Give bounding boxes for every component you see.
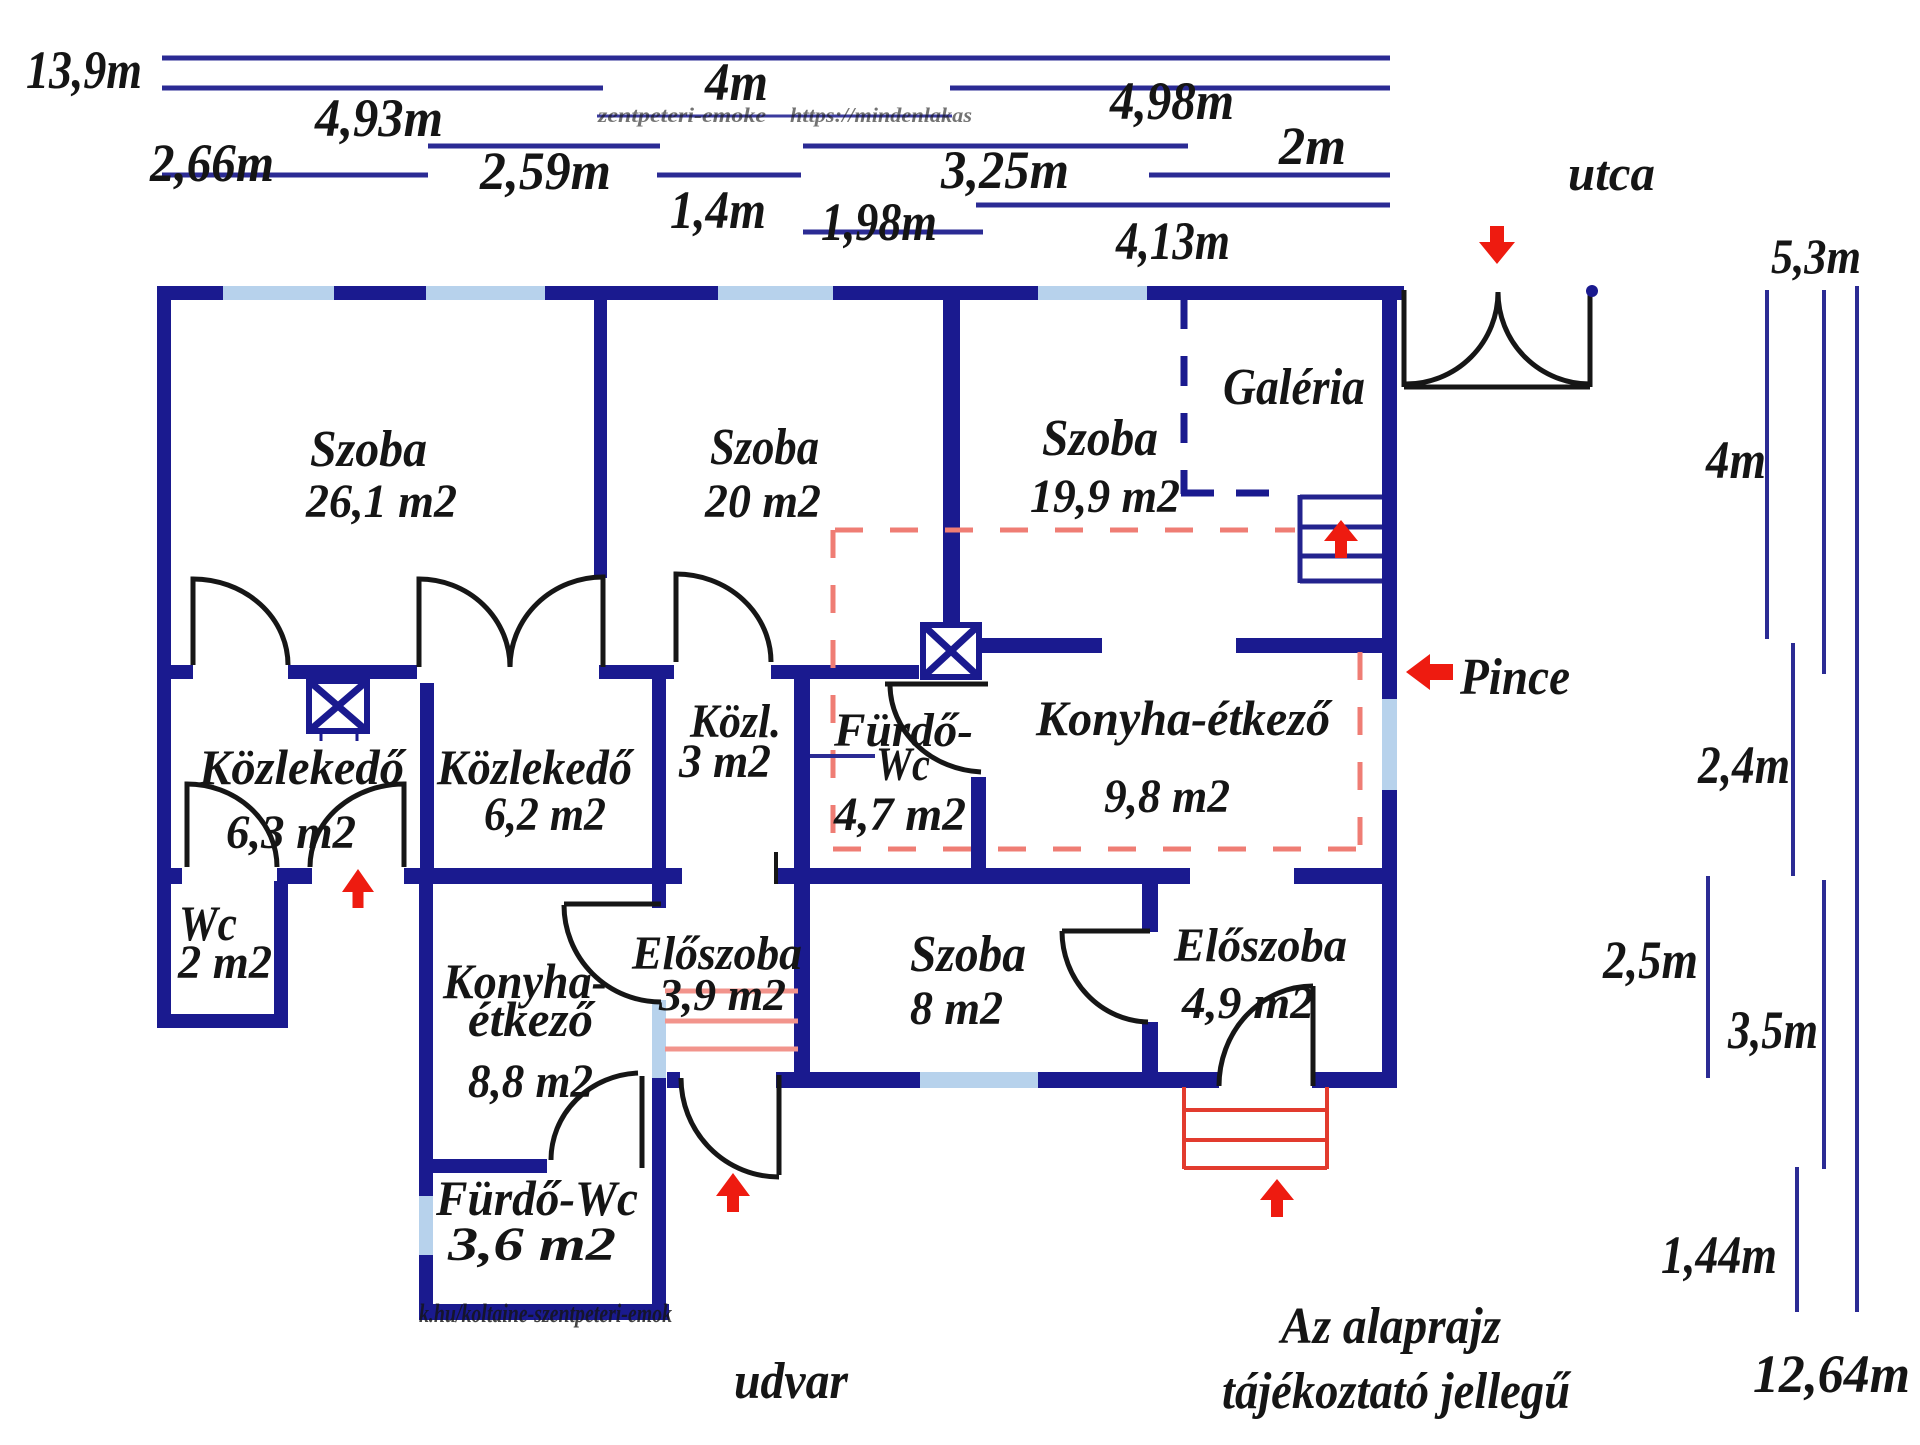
- right exterior wall: [1382, 300, 1397, 1088]
- svg-text:2 m2: 2 m2: [177, 936, 272, 989]
- door Furdo-Wc 3,6: [640, 1076, 645, 1168]
- svg-text:Közlekedő: Közlekedő: [198, 739, 407, 795]
- door Eloszoba 3,9 from Kozl 3: [564, 902, 661, 907]
- svg-text:Pince: Pince: [1459, 649, 1570, 706]
- dimension line 2m: [1149, 173, 1390, 178]
- entry gate left frame: [1402, 290, 1407, 387]
- entry gate right frame: [1588, 292, 1593, 387]
- left exterior wall: [157, 286, 171, 1028]
- blue dashed galeria horizontal: [1181, 490, 1290, 497]
- svg-text:4,13m: 4,13m: [1115, 211, 1230, 271]
- red arrow up at entrance Kozlekedo 6,3: [342, 869, 374, 908]
- svg-text:6,3 m2: 6,3 m2: [226, 806, 356, 859]
- vertical dimension 3,5m: [1822, 880, 1826, 1169]
- entry gate left arc: [1406, 292, 1498, 384]
- svg-text:zentpeteri-emoke: zentpeteri-emoke: [597, 103, 766, 127]
- dimension line 4,13m: [976, 203, 1390, 208]
- window top wall 3: [718, 286, 833, 300]
- svg-text:1,98m: 1,98m: [821, 192, 937, 252]
- door Szoba 20 south: [676, 574, 771, 662]
- window top wall 4: [1038, 286, 1147, 300]
- svg-text:4m: 4m: [1705, 430, 1766, 490]
- window top wall 1: [223, 286, 334, 300]
- door Szoba 26,1: [193, 579, 288, 665]
- door jamb mark at band opening: [774, 852, 778, 884]
- red arrow up udvar door: [716, 1173, 750, 1212]
- dimension line left segment row2: [162, 86, 603, 91]
- vertical dimension 2,5m: [1706, 876, 1710, 1078]
- svg-text:20 m2: 20 m2: [704, 475, 821, 528]
- wall right of Furdo-Wc 4,7: [971, 777, 986, 870]
- svg-text:2m: 2m: [1278, 116, 1346, 176]
- dimension line 4m (thin): [597, 115, 952, 118]
- svg-text:Szoba: Szoba: [1042, 410, 1158, 467]
- svg-text:4,93m: 4,93m: [314, 88, 443, 148]
- svg-text:2,59m: 2,59m: [479, 141, 611, 201]
- window top wall 2: [426, 286, 545, 300]
- wall between Kozlekedo 6,3 and 6,2: [420, 683, 434, 868]
- svg-text:utca: utca: [1568, 145, 1655, 201]
- Wc annex bottom wall: [157, 1014, 288, 1028]
- svg-text:étkező: étkező: [468, 991, 596, 1047]
- bottom exterior wall right: [1312, 1072, 1397, 1088]
- svg-text:Szoba: Szoba: [710, 419, 819, 476]
- dimension line 4,93m: [428, 144, 660, 149]
- top exterior wall: [157, 286, 1404, 300]
- Wc annex right wall: [274, 881, 288, 1014]
- lower wall of Szoba rooms seg4: [771, 665, 919, 679]
- interior wall x652 upper: [652, 676, 666, 908]
- svg-text:3,6 m2: 3,6 m2: [447, 1218, 616, 1271]
- middle wall band segment 1: [157, 868, 182, 884]
- dimension line right segment row2 (4,98m): [950, 86, 1390, 91]
- door Wc: [187, 784, 277, 867]
- left annex wall: [419, 868, 433, 1320]
- red arrow up outside stairs: [1260, 1179, 1294, 1217]
- flue box 1: [309, 681, 367, 741]
- dimension line 13,9m: [162, 56, 1390, 61]
- vertical dimension 5,3m: [1822, 290, 1826, 674]
- lower wall of Szoba rooms seg1: [171, 665, 193, 679]
- svg-text:3,25m: 3,25m: [940, 140, 1069, 200]
- blue dashed galeria vertical: [1181, 299, 1188, 494]
- flue box 2: [923, 625, 979, 677]
- svg-text:Szoba: Szoba: [310, 421, 427, 478]
- entrance door Kozlekedo 6,3: [310, 784, 404, 867]
- svg-text:Szoba: Szoba: [910, 926, 1026, 983]
- annex bottom wall: [419, 1304, 669, 1320]
- double door Szoba 20 left leaf: [419, 579, 510, 667]
- window interior wall x652: [652, 1000, 666, 1078]
- svg-text:4,7 m2: 4,7 m2: [833, 788, 966, 841]
- window bottom wall: [920, 1072, 1038, 1088]
- door Furdo-Wc 4,7: [885, 682, 988, 687]
- svg-text:6,2 m2: 6,2 m2: [484, 788, 606, 841]
- Galeria lower wall seg2: [1236, 638, 1382, 653]
- svg-text:4,98m: 4,98m: [1109, 71, 1234, 131]
- vertical dimension 4m right: [1765, 290, 1769, 639]
- entry gate bottom line: [1404, 385, 1590, 390]
- red arrow down at entry: [1479, 226, 1515, 264]
- middle wall band segment 5: [1294, 868, 1397, 884]
- svg-text:Az alaprajz: Az alaprajz: [1278, 1298, 1501, 1355]
- svg-text:12,64m: 12,64m: [1753, 1344, 1910, 1404]
- svg-text:1,44m: 1,44m: [1661, 1225, 1777, 1285]
- red dashed rectangle right edge: [1358, 652, 1363, 849]
- svg-text:https://mindenlakas: https://mindenlakas: [790, 103, 972, 127]
- red dashed rectangle top edge: [835, 528, 1295, 533]
- svg-text:8,8 m2: 8,8 m2: [468, 1055, 593, 1108]
- dimension line 1,4m: [657, 173, 801, 178]
- svg-text:udvar: udvar: [734, 1353, 849, 1410]
- window left annex wall: [419, 1196, 433, 1255]
- vertical dimension 1,44m: [1795, 1167, 1799, 1312]
- red dashed rectangle left edge: [831, 530, 836, 853]
- svg-text:13,9m: 13,9m: [26, 40, 142, 100]
- wall left of Furdo-Wc 4,7: [794, 677, 810, 1088]
- red dashed rectangle bottom edge: [833, 847, 1359, 852]
- vertical dimension 2,4m: [1791, 643, 1795, 876]
- svg-text:Galéria: Galéria: [1223, 359, 1365, 416]
- dimension line 1,98m: [803, 230, 983, 235]
- lower wall of Szoba rooms seg3: [599, 665, 674, 679]
- door Eloszoba 3,9 to udvar: [777, 1075, 782, 1175]
- svg-text:2,4m: 2,4m: [1697, 735, 1790, 795]
- vertical dimension 12,64m: [1855, 286, 1859, 1312]
- svg-text:Konyha-étkező: Konyha-étkező: [1035, 690, 1333, 746]
- svg-text:Előszoba: Előszoba: [1173, 919, 1347, 972]
- svg-text:1,4m: 1,4m: [670, 180, 766, 240]
- bottom exterior wall middle: [776, 1072, 1219, 1088]
- middle wall band segment 4: [774, 868, 1190, 884]
- svg-text:tájékoztató jellegű: tájékoztató jellegű: [1222, 1363, 1572, 1420]
- svg-text:3,5m: 3,5m: [1727, 1000, 1818, 1060]
- svg-text:2,66m: 2,66m: [149, 133, 274, 193]
- svg-text:19,9 m2: 19,9 m2: [1030, 470, 1180, 523]
- svg-text:5,3m: 5,3m: [1771, 228, 1861, 284]
- front door Eloszoba 4,9: [1311, 986, 1316, 1086]
- window right wall: [1382, 699, 1397, 790]
- bath edge line: [810, 754, 875, 758]
- door Szoba 8: [1062, 929, 1150, 934]
- interior wall x652 lower: [652, 1078, 666, 1320]
- svg-text:3 m2: 3 m2: [678, 735, 771, 788]
- double door Szoba 20 right leaf: [510, 577, 603, 667]
- svg-text:Wc: Wc: [876, 738, 930, 791]
- middle wall band segment 2: [277, 868, 312, 884]
- wall between Szoba 8 and Eloszoba 4,9 upper: [1142, 884, 1158, 932]
- middle wall band segment 3: [404, 868, 682, 884]
- galeria staircase: [1300, 495, 1382, 583]
- svg-text:4,9 m2: 4,9 m2: [1181, 977, 1314, 1028]
- wall between Konyha 8,8 and Furdo-Wc 3,6: [419, 1159, 547, 1173]
- svg-text:Közlekedő: Közlekedő: [436, 739, 635, 795]
- red arrow up galeria stairs: [1324, 520, 1358, 558]
- red outside staircase: [1184, 1087, 1327, 1169]
- svg-text:2,5m: 2,5m: [1602, 930, 1698, 990]
- wall between Szoba 26,1 and Szoba 20: [594, 300, 607, 578]
- svg-text:9,8 m2: 9,8 m2: [1104, 770, 1230, 823]
- dimension line 2,66m: [162, 173, 428, 178]
- wall between Szoba 20 and Szoba 19,9: [943, 300, 960, 623]
- svg-text:k.hu/koltaine-szentpeteri-emok: k.hu/koltaine-szentpeteri-emok: [419, 1299, 672, 1328]
- entry gate corner dot: [1586, 285, 1598, 297]
- Galeria lower wall seg1: [979, 638, 1102, 653]
- wall between Szoba 8 and Eloszoba 4,9 lower: [1142, 1022, 1158, 1088]
- red arrow left Pince: [1406, 654, 1453, 690]
- svg-text:26,1 m2: 26,1 m2: [305, 475, 457, 528]
- dimension line 3,25m: [803, 144, 1188, 149]
- svg-text:8 m2: 8 m2: [910, 982, 1003, 1035]
- lower wall of Szoba rooms seg2: [288, 665, 417, 679]
- svg-text:3,9 m2: 3,9 m2: [658, 969, 786, 1020]
- entry gate right arc: [1498, 292, 1590, 384]
- bottom wall stub at Eloszoba 3,9: [667, 1072, 680, 1088]
- red stair treads left: [665, 989, 798, 994]
